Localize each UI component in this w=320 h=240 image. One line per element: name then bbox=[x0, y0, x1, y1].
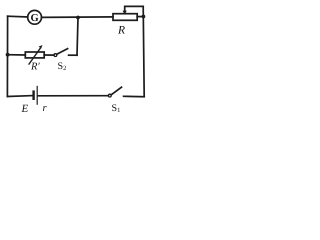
wire right vertical bbox=[143, 6, 144, 96]
wire vertical branch (top wire to S2 branch) bbox=[77, 18, 78, 56]
galvanometer G bbox=[28, 10, 42, 24]
wire battery to switch S1 bbox=[38, 95, 108, 97]
wire middle branch left bbox=[8, 54, 26, 56]
node junction left rail (dot) bbox=[6, 53, 10, 57]
resistor R bbox=[113, 14, 137, 21]
switch S1 blade bbox=[111, 87, 121, 95]
svg-text:r: r bbox=[43, 103, 48, 114]
wire R' to switch S2 bbox=[44, 54, 54, 56]
switch S2 blade bbox=[57, 49, 68, 55]
svg-text:R: R bbox=[117, 25, 125, 37]
switch S1 pivot bbox=[108, 94, 111, 97]
svg-text:G: G bbox=[31, 13, 39, 24]
arrow through R' bbox=[29, 48, 41, 65]
battery plate long (positive) bbox=[36, 86, 38, 104]
wire S2 contact to corner bbox=[69, 54, 77, 56]
wire R right to right rail bbox=[137, 16, 143, 18]
battery plate short (negative) bbox=[32, 92, 34, 99]
wire S1 contact to bottom right corner bbox=[124, 95, 145, 97]
wire top left (to galvanometer) bbox=[8, 15, 28, 18]
svg-text:R′: R′ bbox=[30, 62, 40, 73]
wire left vertical bbox=[6, 16, 8, 96]
wire top right of G to R bbox=[42, 16, 114, 19]
node junction right rail (dot) bbox=[142, 15, 146, 19]
wire bottom left bbox=[7, 95, 32, 98]
switch S2 pivot bbox=[54, 54, 57, 57]
svg-text:E: E bbox=[21, 103, 29, 115]
resistor R' (variable) bbox=[25, 52, 44, 58]
rheostat tap arrowhead (down onto R) bbox=[123, 11, 127, 15]
wire rheostat tap loop bbox=[125, 6, 144, 13]
svg-text:S1: S1 bbox=[112, 103, 121, 114]
node junction top (dot) bbox=[76, 16, 80, 20]
svg-text:S2: S2 bbox=[58, 61, 67, 72]
